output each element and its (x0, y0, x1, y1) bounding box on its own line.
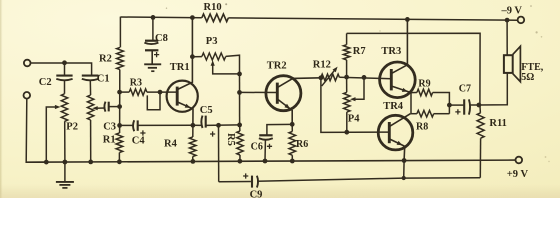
label P4 (348, 113, 360, 124)
wire C5 left lead (193, 124, 201, 126)
svg-text:R4: R4 (164, 139, 178, 150)
svg-text:R3: R3 (130, 78, 142, 89)
wire C3 wiper lead (96, 107, 106, 109)
potentiometer P2 (61, 94, 67, 122)
node R7/P4 junction (344, 75, 349, 80)
wire TR1 collector (177, 18, 192, 90)
wire R11 leads (479, 105, 482, 178)
arrow TR2 emitter (284, 104, 290, 109)
svg-text:R7: R7 (353, 46, 366, 57)
arrow TR4 emitter (397, 141, 403, 145)
svg-text:TR3: TR3 (381, 46, 401, 57)
wire P4 bottom lead (346, 112, 348, 132)
wire R2 bottom to R1 top (119, 70, 121, 133)
wire P2b bottom to ground rail (90, 120, 92, 162)
label R8 (416, 121, 428, 132)
wire C7 right lead (469, 104, 479, 106)
wire C3 right lead (109, 106, 120, 108)
wire C9 left segment (219, 181, 251, 183)
wire C4 left lead (120, 124, 134, 126)
svg-text:R8: R8 (416, 121, 428, 132)
svg-text:5Ω: 5Ω (521, 72, 534, 83)
label R3 (130, 78, 142, 89)
svg-text:R6: R6 (296, 139, 308, 150)
svg-text:C7: C7 (459, 84, 471, 95)
capacitor C7 (455, 99, 470, 114)
wire R5 leads (239, 125, 241, 161)
label C8 (155, 33, 168, 44)
svg-text:C3: C3 (103, 121, 116, 132)
wire C5 right lead (206, 124, 240, 127)
resistor R10 (202, 14, 229, 22)
wire TR1 emitter (177, 102, 193, 125)
node C6 ground (263, 159, 268, 164)
resistor R3 (129, 89, 147, 95)
symbol C6 plus (267, 144, 272, 149)
wire hook below TR1 base (147, 92, 160, 110)
label R4 (164, 139, 178, 150)
terminal -9V (518, 17, 525, 24)
node TR1 emitter (191, 123, 196, 128)
node output junction (477, 103, 482, 108)
wire R8 leads (410, 113, 449, 115)
capacitor C1 (82, 76, 99, 81)
arrow TR1 emitter (185, 104, 191, 108)
wire P3 right lead (226, 55, 240, 74)
wire P4 wiper bracket (354, 77, 365, 99)
capacitor C2 (56, 76, 72, 81)
svg-text:R12: R12 (313, 60, 331, 71)
label R5 rotated (225, 133, 236, 146)
resistor R12 trimmer (321, 74, 340, 81)
node R2/R3 junction (117, 90, 122, 95)
svg-text:C1: C1 (97, 73, 110, 84)
wire rail corner down to R2 (119, 17, 121, 48)
label C4 (132, 135, 146, 146)
svg-text:TR2: TR2 (267, 60, 287, 71)
terminal input bottom (24, 92, 31, 99)
wire P2 bottom to ground rail (64, 121, 66, 162)
resistor R11 (477, 113, 484, 138)
label -9V (501, 6, 523, 17)
svg-text:P4: P4 (348, 113, 360, 124)
wire C4 right lead to TR1 emitter node (138, 124, 193, 126)
svg-text:C8: C8 (155, 33, 168, 44)
label P2 (66, 121, 78, 132)
node P4 wiper tap (362, 75, 367, 80)
node TR3 collector rail (405, 17, 410, 22)
resistor R9 (417, 89, 433, 96)
wire TR3 emitter to TR4 collector (410, 93, 412, 114)
node TR2 collector corner (319, 75, 324, 80)
wire TR2 collector (277, 78, 321, 88)
wire -9V top supply rail (121, 17, 518, 20)
wire speaker bottom lead (479, 73, 507, 105)
node C2 tap (62, 60, 67, 65)
svg-text:R1: R1 (103, 135, 116, 146)
label R7 (353, 46, 366, 57)
capacitor C8 (144, 41, 159, 64)
wire C2 top lead (64, 63, 66, 76)
label C1 (97, 73, 110, 84)
wire C2 bottom to P2 (64, 80, 66, 94)
node C4 junction (117, 123, 122, 128)
label C7 (459, 84, 471, 95)
wire C1 bottom lead (89, 80, 91, 95)
terminal +9V (516, 157, 523, 164)
node speaker rail (505, 18, 510, 23)
node P3 wiper junction (237, 72, 242, 77)
label R10 (204, 2, 222, 13)
node R5 ground (238, 159, 243, 164)
wire R4 leads (192, 125, 194, 161)
resistor R7 (343, 45, 349, 60)
transistor TR1 (167, 81, 198, 112)
label C3 (103, 121, 116, 132)
wire C6 branch (267, 124, 292, 135)
wire TR2 emitter (277, 99, 292, 124)
wire C6 bottom stub (264, 140, 266, 161)
label FTE (521, 62, 543, 73)
wire speaker top lead (506, 20, 508, 55)
wire P3 node down to R5 node (239, 74, 241, 125)
potentiometer P3 (202, 53, 226, 60)
node C9 drop (216, 123, 221, 128)
resistor R8 (417, 110, 434, 117)
label R2 (99, 54, 112, 65)
wire R3 left lead (120, 91, 130, 93)
node P2 wiper ground (44, 160, 49, 165)
label TR3 (381, 46, 401, 57)
wire +9V bottom rail (26, 160, 515, 162)
svg-text:–9 V: –9 V (501, 6, 523, 17)
svg-text:P2: P2 (66, 121, 78, 132)
wire P4 top lead (346, 77, 348, 92)
arrow C3 to P2b wiper (92, 106, 98, 110)
label R12 (313, 60, 331, 71)
node R4 ground (191, 159, 196, 164)
wire input top to C1 (31, 63, 92, 75)
svg-text:R2: R2 (99, 54, 112, 65)
arrow R12 (322, 67, 338, 86)
node lower line T (402, 176, 406, 180)
ground below C8 (144, 64, 161, 71)
node C3 junction (117, 104, 122, 109)
label C6 (251, 141, 263, 152)
wire R6 leads (291, 124, 293, 161)
svg-text:C4: C4 (132, 135, 146, 146)
wire TR3 emitter (391, 86, 411, 93)
wire C7 left lead (449, 104, 463, 106)
label C9 (250, 189, 263, 200)
label TR4 (383, 101, 404, 112)
wire P3 wiper (213, 65, 240, 74)
resistor R6 (289, 132, 296, 156)
node R1 ground (117, 159, 122, 164)
node P3 left tap (190, 54, 195, 59)
node C8 rail junction (151, 15, 156, 20)
wire R7 top line to output node (347, 33, 481, 105)
arrow P4 wiper (350, 97, 356, 101)
node R6 ground (290, 159, 295, 164)
node P4 bottom junction (344, 130, 349, 135)
svg-text:+9 V: +9 V (507, 169, 529, 180)
node P2 ground (63, 160, 68, 165)
wire P3 left lead (192, 56, 202, 58)
node R5 top (237, 123, 242, 128)
wire R7 leads (346, 33, 348, 77)
label 5 ohm (521, 72, 534, 83)
transistor TR3 (380, 62, 416, 98)
node TR4 emitter rail (402, 158, 407, 163)
ground main (56, 162, 74, 188)
potentiometer P2b (87, 95, 93, 120)
wire R3 right lead to base (147, 91, 177, 93)
svg-text:R9: R9 (418, 78, 430, 89)
svg-text:C5: C5 (200, 105, 213, 116)
label TR2 (267, 60, 287, 71)
node TR1 base (158, 90, 163, 95)
speaker FTE (504, 46, 521, 81)
wire riser to +9V rail (403, 161, 405, 179)
wire R1 bottom to ground rail (118, 153, 120, 162)
transistor TR2 (266, 76, 301, 111)
resistor R1 (116, 133, 123, 153)
svg-text:R10: R10 (204, 2, 222, 13)
svg-text:C2: C2 (39, 77, 52, 88)
wire TR4 collector (389, 114, 410, 127)
transistor TR4 (378, 115, 413, 150)
node C7 tap (447, 103, 452, 108)
wire C9 drop vertical (218, 125, 220, 181)
label +9V (507, 169, 529, 180)
capacitor C5 (201, 116, 215, 137)
node TR2 emitter (290, 122, 295, 127)
terminal input top (24, 60, 31, 67)
label C5 (200, 105, 213, 116)
node TR2 base tap (237, 90, 242, 95)
wire C8 stem from rail (152, 17, 154, 40)
node TR1 collector rail (190, 15, 195, 20)
wire P2 wiper bracket (46, 107, 56, 162)
resistor R5 (237, 131, 243, 155)
capacitor C6 (259, 135, 273, 139)
label TR1 (170, 62, 190, 73)
resistor R4 (189, 137, 196, 157)
label R9 (418, 78, 430, 89)
wire TR4 emitter (389, 139, 404, 161)
wire TR2 collector down to TR4 base (321, 78, 389, 133)
svg-text:C9: C9 (250, 189, 263, 198)
label R11 (489, 118, 507, 129)
arrow P3 wiper (211, 60, 215, 65)
svg-text:C6: C6 (251, 141, 263, 152)
label R6 (296, 139, 308, 150)
capacitor C3 (104, 102, 108, 112)
label R1 (103, 135, 116, 146)
svg-text:R11: R11 (489, 118, 507, 129)
arrow P2 wiper (55, 105, 61, 109)
svg-text:TR1: TR1 (170, 62, 190, 73)
label C2 (39, 77, 52, 88)
svg-text:P3: P3 (206, 36, 218, 47)
resistor R2 (117, 47, 124, 69)
label P3 (206, 36, 218, 47)
wire TR2 base (240, 91, 278, 93)
potentiometer P4 (344, 92, 350, 112)
arrow TR3 emitter (402, 88, 408, 92)
wire R12 to TR3 base (339, 77, 391, 79)
wire C9 right segment (257, 178, 480, 182)
capacitor C4 (133, 120, 145, 135)
svg-text:R5: R5 (225, 133, 236, 146)
node P2b ground (88, 160, 93, 165)
capacitor C9 (243, 173, 258, 187)
wire TR3 collector (391, 19, 407, 73)
wire input bottom to ground rail (26, 99, 46, 163)
svg-text:TR4: TR4 (383, 101, 404, 112)
wire R9 leads (411, 93, 449, 114)
